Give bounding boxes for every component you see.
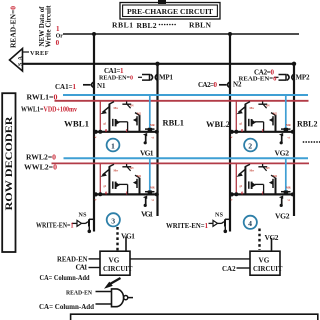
- wire: dotted VG2 column: [258, 229, 260, 251]
- wire: RWL1 (blue): [63, 94, 308, 96]
- svg-text:PRE-CHARGE CIRCUIT: PRE-CHARGE CIRCUIT: [127, 7, 214, 16]
- svg-text:Write Circuit: Write Circuit: [45, 5, 53, 48]
- wire: WWL2 (red): [52, 162, 310, 164]
- wire: VG1 to VG2 box: [130, 258, 250, 260]
- svg-text:VG1: VG1: [141, 209, 153, 218]
- wire: RBL2 column: [293, 64, 295, 216]
- svg-text:RBL1: RBL1: [112, 21, 133, 30]
- svg-text:WBL2: WBL2: [206, 119, 231, 129]
- svg-text:3: 3: [111, 216, 115, 225]
- ellipsis right edge: [303, 141, 320, 143]
- svg-text:VG1: VG1: [140, 149, 154, 158]
- cell number 2: [244, 139, 257, 152]
- cell number 1: [107, 139, 120, 152]
- wire: WWL1 (red): [55, 100, 309, 102]
- svg-text:VG1: VG1: [121, 231, 135, 240]
- svg-text:CA1: CA1: [76, 263, 88, 272]
- svg-text:VG: VG: [259, 257, 270, 265]
- svg-text:CIRCUIT: CIRCUIT: [253, 266, 283, 273]
- transistor N1: [83, 82, 94, 87]
- wire: dotted VG1 column: [116, 227, 118, 252]
- svg-text:CA2: CA2: [222, 265, 236, 273]
- svg-text:READ-EN: READ-EN: [66, 289, 92, 296]
- VG circuit box 1: [100, 251, 130, 275]
- memory cell 4: [230, 158, 295, 207]
- svg-text:CA= Column-Add: CA= Column-Add: [39, 303, 94, 311]
- svg-text:VG: VG: [109, 257, 120, 265]
- NAND gate: [96, 291, 112, 293]
- svg-text:RBL2: RBL2: [137, 21, 157, 30]
- svg-text:1: 1: [56, 25, 60, 33]
- transistor NS left: [73, 219, 95, 233]
- svg-text:0: 0: [56, 39, 60, 47]
- svg-text:READ-EN=0: READ-EN=0: [239, 76, 278, 83]
- svg-text:WBL1: WBL1: [64, 119, 89, 129]
- svg-text:WWL1=VDD+100mv: WWL1=VDD+100mv: [21, 105, 77, 113]
- memory cell 3: [94, 158, 159, 207]
- wire: SA input line: [23, 63, 295, 65]
- svg-text:CIRCUIT: CIRCUIT: [103, 266, 133, 273]
- svg-text:WRITE-EN=1: WRITE-EN=1: [166, 222, 208, 230]
- svg-text:VG2: VG2: [275, 211, 290, 220]
- svg-text:MP2: MP2: [296, 74, 311, 82]
- wire: VREF stub: [23, 51, 30, 53]
- wire: RWL2 (blue): [64, 157, 309, 159]
- svg-text:RWL1=0: RWL1=0: [27, 92, 58, 101]
- svg-text:NS: NS: [215, 212, 224, 218]
- memory cell 1: [94, 95, 159, 144]
- sense amplifier SA: [10, 49, 23, 72]
- svg-text:CA= Column-Add: CA= Column-Add: [40, 274, 90, 282]
- ellipsis: [159, 24, 176, 26]
- svg-text:N2: N2: [233, 81, 242, 89]
- VG circuit box 2: [250, 251, 280, 275]
- svg-text:VREF: VREF: [30, 50, 49, 57]
- svg-text:2: 2: [248, 142, 252, 151]
- transistor MP1: [138, 74, 157, 80]
- row decoder box: [2, 93, 15, 252]
- svg-text:CA2=0: CA2=0: [198, 81, 218, 89]
- memory cell 2: [230, 95, 295, 144]
- bottom caption box: [71, 314, 318, 320]
- wire: WBL1 column: [93, 34, 95, 232]
- cell number 4: [244, 216, 257, 229]
- svg-text:MP1: MP1: [159, 74, 174, 82]
- svg-text:N1: N1: [97, 82, 106, 90]
- svg-text:WRITE-EN=1: WRITE-EN=1: [36, 222, 74, 230]
- svg-text:RBLN: RBLN: [189, 21, 212, 30]
- svg-text:4: 4: [248, 219, 252, 228]
- transistor NS right: [209, 219, 231, 233]
- wire: into VG2 box: [271, 238, 273, 252]
- arrow to NAND: [110, 278, 121, 284]
- transistor MP2: [275, 74, 294, 80]
- wire: into VG1 box: [125, 237, 127, 252]
- pre-charge circuit stub: [158, 0, 166, 4]
- svg-text:WWL2=0: WWL2=0: [24, 163, 57, 172]
- svg-text:READ-EN=0: READ-EN=0: [99, 74, 134, 81]
- svg-text:NS: NS: [79, 212, 88, 218]
- svg-text:READ-EN=0: READ-EN=0: [8, 6, 17, 48]
- wire: RBL1 column: [156, 64, 158, 216]
- svg-text:VG2: VG2: [275, 149, 290, 158]
- pre-charge circuit box: [120, 3, 220, 20]
- transistor N2: [219, 82, 230, 87]
- svg-text:CA1=1: CA1=1: [55, 83, 77, 91]
- cell number 3: [107, 213, 120, 226]
- svg-text:RBL1: RBL1: [163, 117, 185, 127]
- svg-text:ROW DECODER: ROW DECODER: [4, 116, 14, 211]
- wire: WBL2 column: [229, 34, 231, 232]
- wire: write data line: [63, 33, 299, 35]
- svg-text:RBL2: RBL2: [297, 118, 318, 128]
- svg-text:1: 1: [111, 142, 115, 151]
- svg-text:RWL2=0: RWL2=0: [26, 152, 56, 161]
